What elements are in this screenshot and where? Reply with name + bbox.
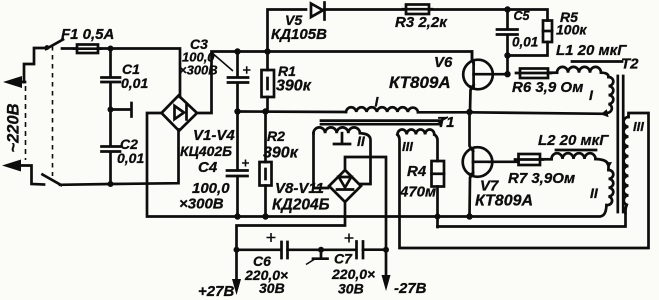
svg-text:30В: 30В [338,281,364,297]
svg-text:100,0: 100,0 [192,180,230,197]
resistor R6 [516,69,557,79]
resistor R5 [508,21,553,56]
svg-text:F1 0,5А: F1 0,5А [61,26,114,43]
node: mains input lower terminal arrow [2,160,44,185]
resistor R2 [260,112,272,220]
svg-text:100к: 100к [556,22,587,38]
svg-text:C4: C4 [198,159,218,176]
svg-text:V6: V6 [434,54,453,71]
svg-text:C5: C5 [514,9,531,23]
label L1 [556,42,627,62]
chassis ground at C1/C2 midpoint [108,103,132,117]
transformer T2 winding III [624,117,629,213]
chassis ground at T1 winding II center tap [334,133,350,144]
transformer T1 winding II [314,127,371,188]
label L2 [538,132,609,150]
output +27V arrow [232,250,241,295]
transistor V6 [463,52,510,116]
capacitor C5 [497,6,518,74]
switch S1 linkage dashed [52,46,54,176]
svg-text:II: II [357,133,366,149]
resistor R4 [432,135,445,228]
svg-text:×300В: ×300В [179,196,224,213]
node: mains input upper terminal arrow [3,48,46,88]
svg-text:R2: R2 [267,128,285,144]
diode V5 [268,3,407,52]
svg-text:×300В: ×300В [179,63,218,78]
svg-text:-27В: -27В [394,280,427,297]
svg-text:КД105В: КД105В [271,26,327,43]
capacitor C6 [237,233,288,258]
transformer T2 core [618,76,623,212]
chassis ground between C6 and C7 [306,247,328,265]
transistor V7 [463,112,493,219]
svg-text:R7 3,9Ом: R7 3,9Ом [508,170,575,187]
svg-text:Т2: Т2 [621,56,639,73]
transformer T1 winding I [346,107,418,112]
svg-text:R3 2,2к: R3 2,2к [395,14,448,31]
svg-text:0,01: 0,01 [512,35,538,50]
resistor R3 [403,5,548,21]
wire: T2 winding III bottom return [438,214,626,227]
svg-text:КТ809А: КТ809А [389,73,451,92]
svg-text:R4: R4 [407,163,427,180]
wire: bridge minus to bottom rail [147,113,607,217]
svg-text:КД204Б: КД204Б [272,197,330,214]
svg-text:30В: 30В [259,280,285,296]
bridge rectifier V8-V11 [329,170,361,202]
svg-text:470м: 470м [399,184,436,201]
svg-text:+27В: +27В [198,283,234,300]
svg-text:390к: 390к [276,78,312,95]
transformer T1 winding III [398,129,435,134]
wire: upper AC rail to fuse [62,47,77,50]
bridge rectifier V1-V4 [162,96,198,131]
plug connector dashed link [25,86,27,160]
svg-text:C7: C7 [334,251,353,267]
transformer T2 winding II [607,170,614,205]
svg-text:II: II [590,185,599,201]
output -27V arrow [382,250,391,291]
capacitor C1 [102,49,121,147]
label T1 with arrow [437,114,455,131]
svg-text:~220В: ~220В [5,103,23,152]
switch S1 lower blade [43,175,62,186]
svg-text:L2 20 мкГ: L2 20 мкГ [538,132,609,149]
capacitor C3 [228,48,251,111]
transformer T1 core [321,121,440,125]
inductor L2 [552,153,613,170]
svg-text:L1 20 мкГ: L1 20 мкГ [556,42,627,59]
capacitor C2 [102,147,121,185]
svg-text:III: III [633,119,644,134]
svg-text:390к: 390к [263,145,299,162]
wire: T1 winding III left / T2 winding III loop [398,113,649,248]
svg-text:КТ809А: КТ809А [475,193,533,210]
wire: C6 to C7 [288,248,357,251]
fuse F1 [74,45,101,54]
inductor L1 [557,67,609,77]
wire: fuse to bridge top [98,46,180,98]
wire: midpoint rail [238,112,605,114]
switch S1 upper blade [45,40,63,50]
svg-text:0,01: 0,01 [117,150,144,166]
resistor R1 [262,48,275,114]
label C4 [179,159,230,213]
svg-text:V1-V4: V1-V4 [193,127,235,144]
transformer T2 winding I [601,77,614,117]
wire: bridge plus up to +300V rail [197,52,472,114]
wire: bridge V8-V11 minus to -27V [345,157,389,253]
wire: bridge V8-V11 plus to +27V [234,202,346,253]
svg-text:III: III [402,139,413,154]
svg-text:КЦ402Б: КЦ402Б [180,143,232,159]
wire: lower AC rail [60,130,179,188]
svg-text:V8-V11: V8-V11 [275,180,324,197]
resistor R7 [489,154,552,165]
capacitor C7 [345,234,387,259]
svg-text:R6 3,9 Ом: R6 3,9 Ом [512,79,583,96]
capacitor C4 [227,108,249,219]
svg-text:0,01: 0,01 [121,75,148,91]
label C3 [179,36,233,78]
